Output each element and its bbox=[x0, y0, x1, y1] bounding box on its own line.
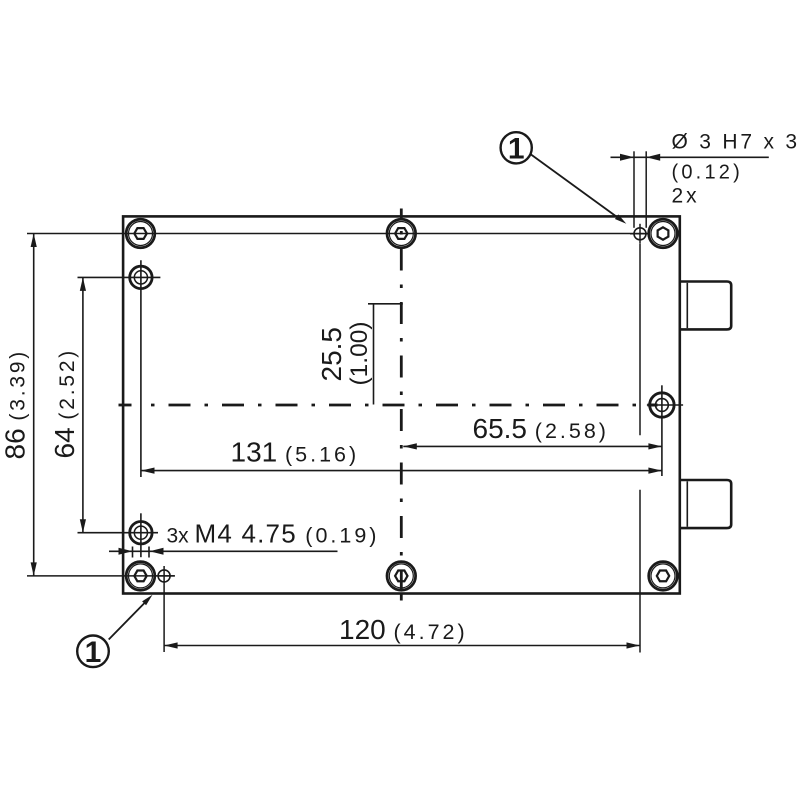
screw bottom-middle bbox=[387, 562, 416, 591]
svg-text:1: 1 bbox=[85, 636, 102, 669]
screw axis line bottom bbox=[27, 575, 175, 577]
callout 1 top circle bbox=[501, 132, 532, 165]
svg-text:131 (5.16): 131 (5.16) bbox=[231, 436, 360, 467]
callout 1 top leader bbox=[531, 155, 626, 224]
dimension 4.75 line bbox=[109, 547, 338, 558]
housing body outline bbox=[123, 216, 680, 593]
pin hole bottom-left bbox=[154, 566, 174, 652]
screw top-middle bbox=[387, 219, 416, 248]
screw right-middle bbox=[647, 385, 683, 476]
svg-text:1: 1 bbox=[508, 133, 525, 166]
dimension 131 line bbox=[141, 468, 662, 474]
screw axis line top bbox=[27, 233, 648, 235]
dimension 25.5 line bbox=[368, 304, 403, 405]
svg-text:(0.12): (0.12) bbox=[672, 162, 743, 184]
callout 1 bottom circle bbox=[77, 636, 109, 670]
screw top-right bbox=[649, 219, 678, 248]
bottom connector bbox=[680, 480, 731, 528]
hole M4 top-left bbox=[130, 266, 152, 288]
svg-text:64 (2.52): 64 (2.52) bbox=[49, 348, 80, 459]
svg-text:2x: 2x bbox=[672, 185, 700, 208]
top connector bbox=[680, 282, 731, 330]
svg-text:120 (4.72): 120 (4.72) bbox=[339, 614, 468, 645]
svg-text:3x M4 4.75 (0.19): 3x M4 4.75 (0.19) bbox=[167, 519, 380, 549]
dimension 120 extension line bbox=[639, 244, 641, 653]
hole M4 top-left crosshair bbox=[78, 260, 161, 477]
dimension 120 line bbox=[164, 642, 640, 648]
pin hole top-right bbox=[630, 224, 650, 244]
svg-text:25.5: 25.5 bbox=[316, 327, 347, 382]
hole M4 bottom-left crosshair bbox=[78, 513, 159, 557]
dimension 65.5 line bbox=[403, 443, 662, 449]
callout 1 bottom leader bbox=[109, 595, 153, 640]
dimension 86 line bbox=[31, 234, 37, 576]
screw bottom-right bbox=[649, 562, 678, 591]
svg-text:Ø 3 H7 x 3: Ø 3 H7 x 3 bbox=[672, 131, 800, 154]
hole M4 bottom-left bbox=[130, 522, 152, 544]
svg-text:65.5 (2.58): 65.5 (2.58) bbox=[473, 413, 609, 444]
screw bottom-left bbox=[126, 562, 155, 591]
dimension 64 line bbox=[80, 277, 86, 532]
svg-text:86 (3.39): 86 (3.39) bbox=[0, 349, 31, 460]
dimension diameter 3 H7 lines bbox=[611, 151, 769, 228]
vertical centerline bbox=[400, 209, 403, 601]
screw top-left bbox=[126, 219, 155, 248]
svg-text:(1.00): (1.00) bbox=[346, 321, 373, 385]
horizontal centerline bbox=[119, 404, 638, 407]
